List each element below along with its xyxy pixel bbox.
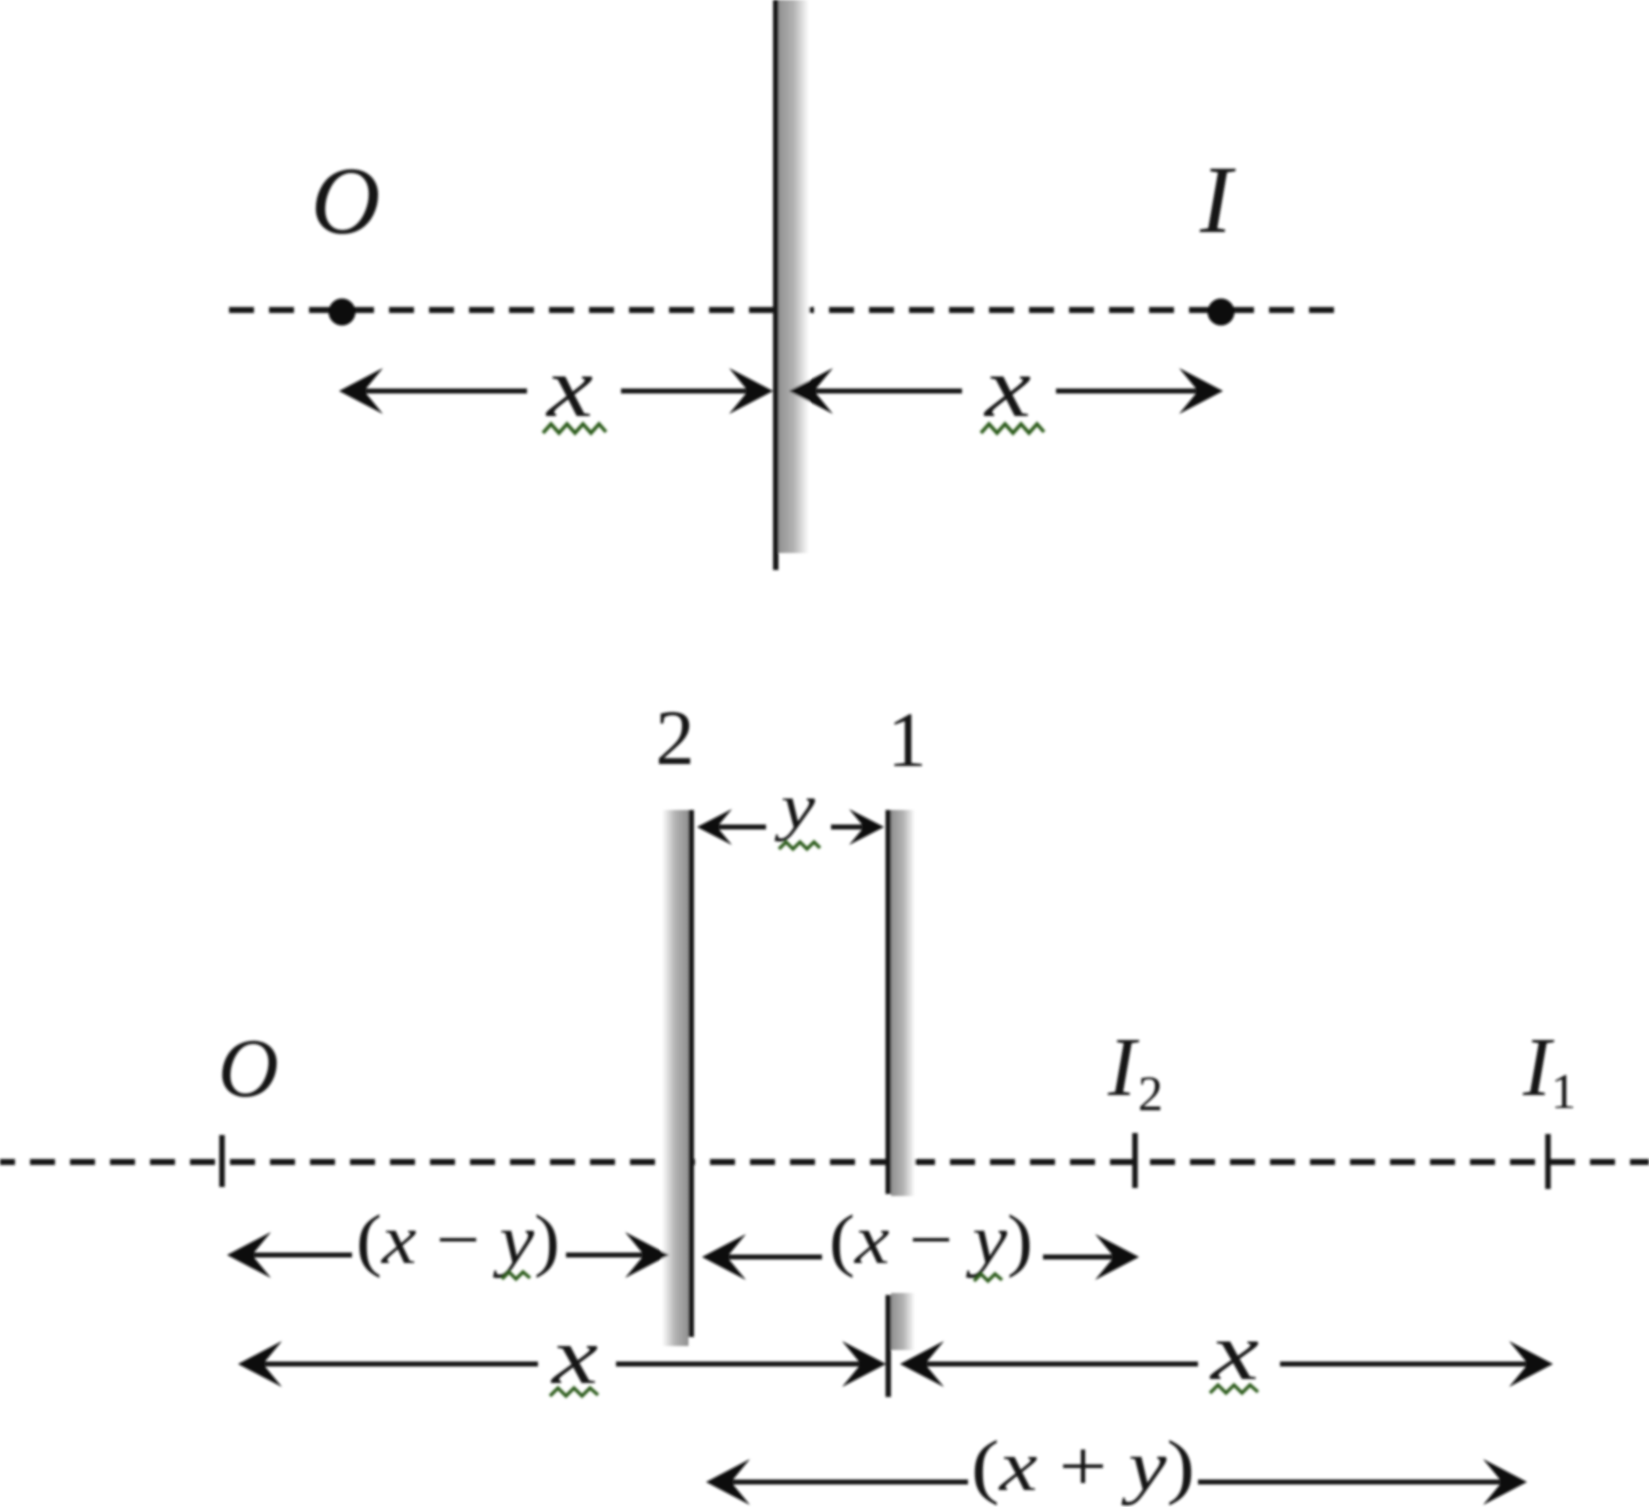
spell squiggle under left (x-y)'s y (502, 1272, 530, 1279)
spell squiggle under left x (543, 424, 606, 433)
svg-text:1: 1 (888, 696, 927, 783)
long x arrow left (bottom) (249, 1362, 873, 1367)
svg-text:O: O (218, 1022, 279, 1115)
axis dashed line (bottom) (0, 1159, 1649, 1165)
tick below I2 (1132, 1133, 1138, 1188)
mirror M line (top) (773, 0, 779, 570)
tick below I1 (1545, 1134, 1551, 1189)
mirror 2 line (689, 810, 695, 1337)
svg-text:y: y (774, 771, 816, 842)
mirror M shading (top) (778, 0, 809, 553)
svg-text:2: 2 (1138, 1065, 1163, 1121)
left (x - y) arrow (238, 1253, 656, 1258)
long x arrow right (bottom) (911, 1362, 1540, 1367)
left distance arrow x (top) (350, 389, 766, 394)
svg-text:2: 2 (656, 694, 695, 781)
mirror 2 shading (662, 810, 689, 1346)
spell squiggle under y (779, 842, 820, 849)
svg-text:(x + y): (x + y) (971, 1426, 1195, 1506)
svg-text:1: 1 (1551, 1063, 1576, 1119)
svg-text:(x − y): (x − y) (356, 1202, 560, 1279)
mirror 1 line upper (886, 810, 892, 1194)
svg-text:I: I (1199, 146, 1236, 253)
svg-text:x: x (545, 339, 593, 435)
(x + y) arrow (717, 1480, 1514, 1485)
svg-text:I: I (1107, 1021, 1140, 1114)
right distance arrow x (top) (800, 389, 1212, 394)
svg-text:O: O (311, 147, 380, 254)
right (x - y) arrow (713, 1255, 1126, 1260)
spell squiggle under right x (981, 424, 1044, 433)
separation arrow y (706, 825, 872, 830)
axis dashed line (top) (229, 307, 1343, 313)
image I point (1208, 299, 1235, 326)
svg-text:(x − y): (x − y) (829, 1202, 1033, 1279)
object O point (329, 299, 356, 326)
spell squiggle under right (x-y)'s y (974, 1274, 1002, 1281)
mirror 1 shading upper (891, 810, 915, 1196)
mirror 1 line lower (886, 1295, 892, 1397)
spell squiggle under bottom right x (1210, 1385, 1258, 1393)
tick below O (219, 1135, 225, 1187)
spell squiggle under bottom left x (550, 1388, 598, 1396)
mirror 1 shading lower (891, 1293, 915, 1350)
svg-text:x: x (983, 339, 1031, 435)
